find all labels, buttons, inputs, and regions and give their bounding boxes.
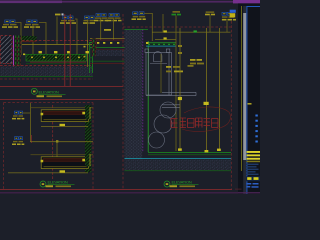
callout G5 — [94, 14, 108, 22]
insulation column — [15, 36, 22, 70]
left wall hatch — [1, 36, 13, 64]
callout C3 — [205, 11, 215, 15]
right gutter background — [238, 3, 260, 194]
small label SEC — [55, 13, 64, 15]
callout G3 — [60, 16, 76, 24]
dim line below bar1 — [41, 124, 88, 127]
dim line ticks — [56, 140, 58, 142]
title 2 circle — [40, 181, 46, 187]
skirting band — [26, 54, 87, 61]
toilet tank outline — [145, 49, 172, 95]
leader verticals middle — [144, 13, 227, 41]
dim text small — [104, 29, 111, 31]
red dashed ceiling line — [22, 40, 93, 42]
callout C4 — [222, 12, 236, 20]
panel blue bullet list — [255, 115, 257, 143]
svg-text:ELEVATION: ELEVATION — [39, 90, 59, 95]
callout G2 — [24, 20, 40, 28]
title 1 text — [37, 90, 66, 98]
bottom window border line — [0, 192, 260, 193]
ceiling band — [146, 16, 182, 152]
callout G4 — [83, 16, 95, 24]
dim vertical lower-left — [22, 103, 57, 157]
lower-left cell red dashed border — [4, 103, 94, 190]
callout C2 — [172, 11, 182, 15]
callout C1 — [132, 12, 146, 20]
wall hatch (section) — [125, 30, 143, 160]
title divider red lines — [0, 86, 123, 99]
dim labels near tank — [166, 65, 194, 72]
floor dim ticks — [178, 148, 221, 152]
tank centre dim line — [160, 54, 162, 93]
app background — [0, 0, 260, 194]
leader lines yellow — [15, 17, 114, 56]
bar 2 assembly — [41, 154, 91, 168]
corner detail between cells — [90, 38, 126, 64]
ceiling band top-left — [22, 36, 37, 42]
right end stud column — [85, 105, 91, 172]
floor red dashed line — [0, 64, 93, 66]
title 3 circle — [164, 181, 170, 187]
title 1 circle — [31, 88, 37, 94]
title 3 text — [170, 180, 199, 188]
ceiling label mid — [190, 59, 204, 64]
svg-text:ELEVATION: ELEVATION — [172, 180, 192, 185]
title 2 text — [46, 180, 75, 188]
bottom border over panel — [238, 192, 260, 193]
red dashed centerline — [52, 105, 54, 180]
panel blue border — [246, 6, 247, 194]
dim text blobs mid — [178, 97, 209, 105]
small dim bracket — [155, 37, 176, 40]
ucs mini icon yellow — [230, 13, 236, 17]
top dim line middle — [152, 30, 231, 32]
callout H2 — [12, 137, 24, 145]
scrollbar thumb — [243, 13, 246, 160]
middle cell red dashed border — [123, 14, 231, 189]
right wall studs — [88, 42, 91, 73]
olive guide line — [241, 6, 242, 171]
command text rows — [247, 164, 259, 175]
red section lines pair — [65, 14, 70, 86]
long dim verticals — [180, 28, 220, 151]
skirting base lines — [30, 61, 86, 64]
hatch top line — [125, 28, 149, 31]
green furring lines — [147, 41, 150, 152]
red revision cloud — [182, 107, 231, 132]
dim line below bar2 — [8, 170, 88, 173]
scrollbar track — [243, 6, 246, 194]
command highlight stripes — [247, 151, 261, 160]
dim top lines — [31, 106, 94, 109]
yellow datum line — [22, 43, 93, 46]
command input row — [247, 176, 261, 181]
panel yellow dash — [248, 103, 252, 105]
bottom red line — [0, 188, 232, 191]
svg-text:ELEVATION: ELEVATION — [48, 180, 68, 185]
dim text blobs row — [23, 51, 89, 55]
status blue text — [246, 183, 258, 188]
title bar purple line — [0, 1, 260, 3]
red annotation text QGMTJD — [171, 118, 218, 128]
toilet seat lines — [146, 92, 196, 95]
toilet trap circles — [149, 102, 177, 148]
callout G1 — [2, 20, 18, 28]
bar 1 assembly — [41, 107, 91, 121]
ucs mini icon blue — [230, 10, 236, 13]
status maroon tick — [235, 188, 242, 191]
floor hatch middle — [125, 160, 232, 171]
callout H1 — [12, 111, 24, 119]
dim dots on band — [31, 57, 80, 59]
bowl rim lines — [162, 105, 180, 108]
waterproof magenta line — [142, 30, 144, 153]
waterproof magenta line — [13, 36, 14, 70]
callout G6 — [107, 14, 122, 22]
floor lines middle — [125, 152, 232, 159]
long dim line — [30, 140, 93, 143]
floor hatch band — [0, 66, 93, 76]
